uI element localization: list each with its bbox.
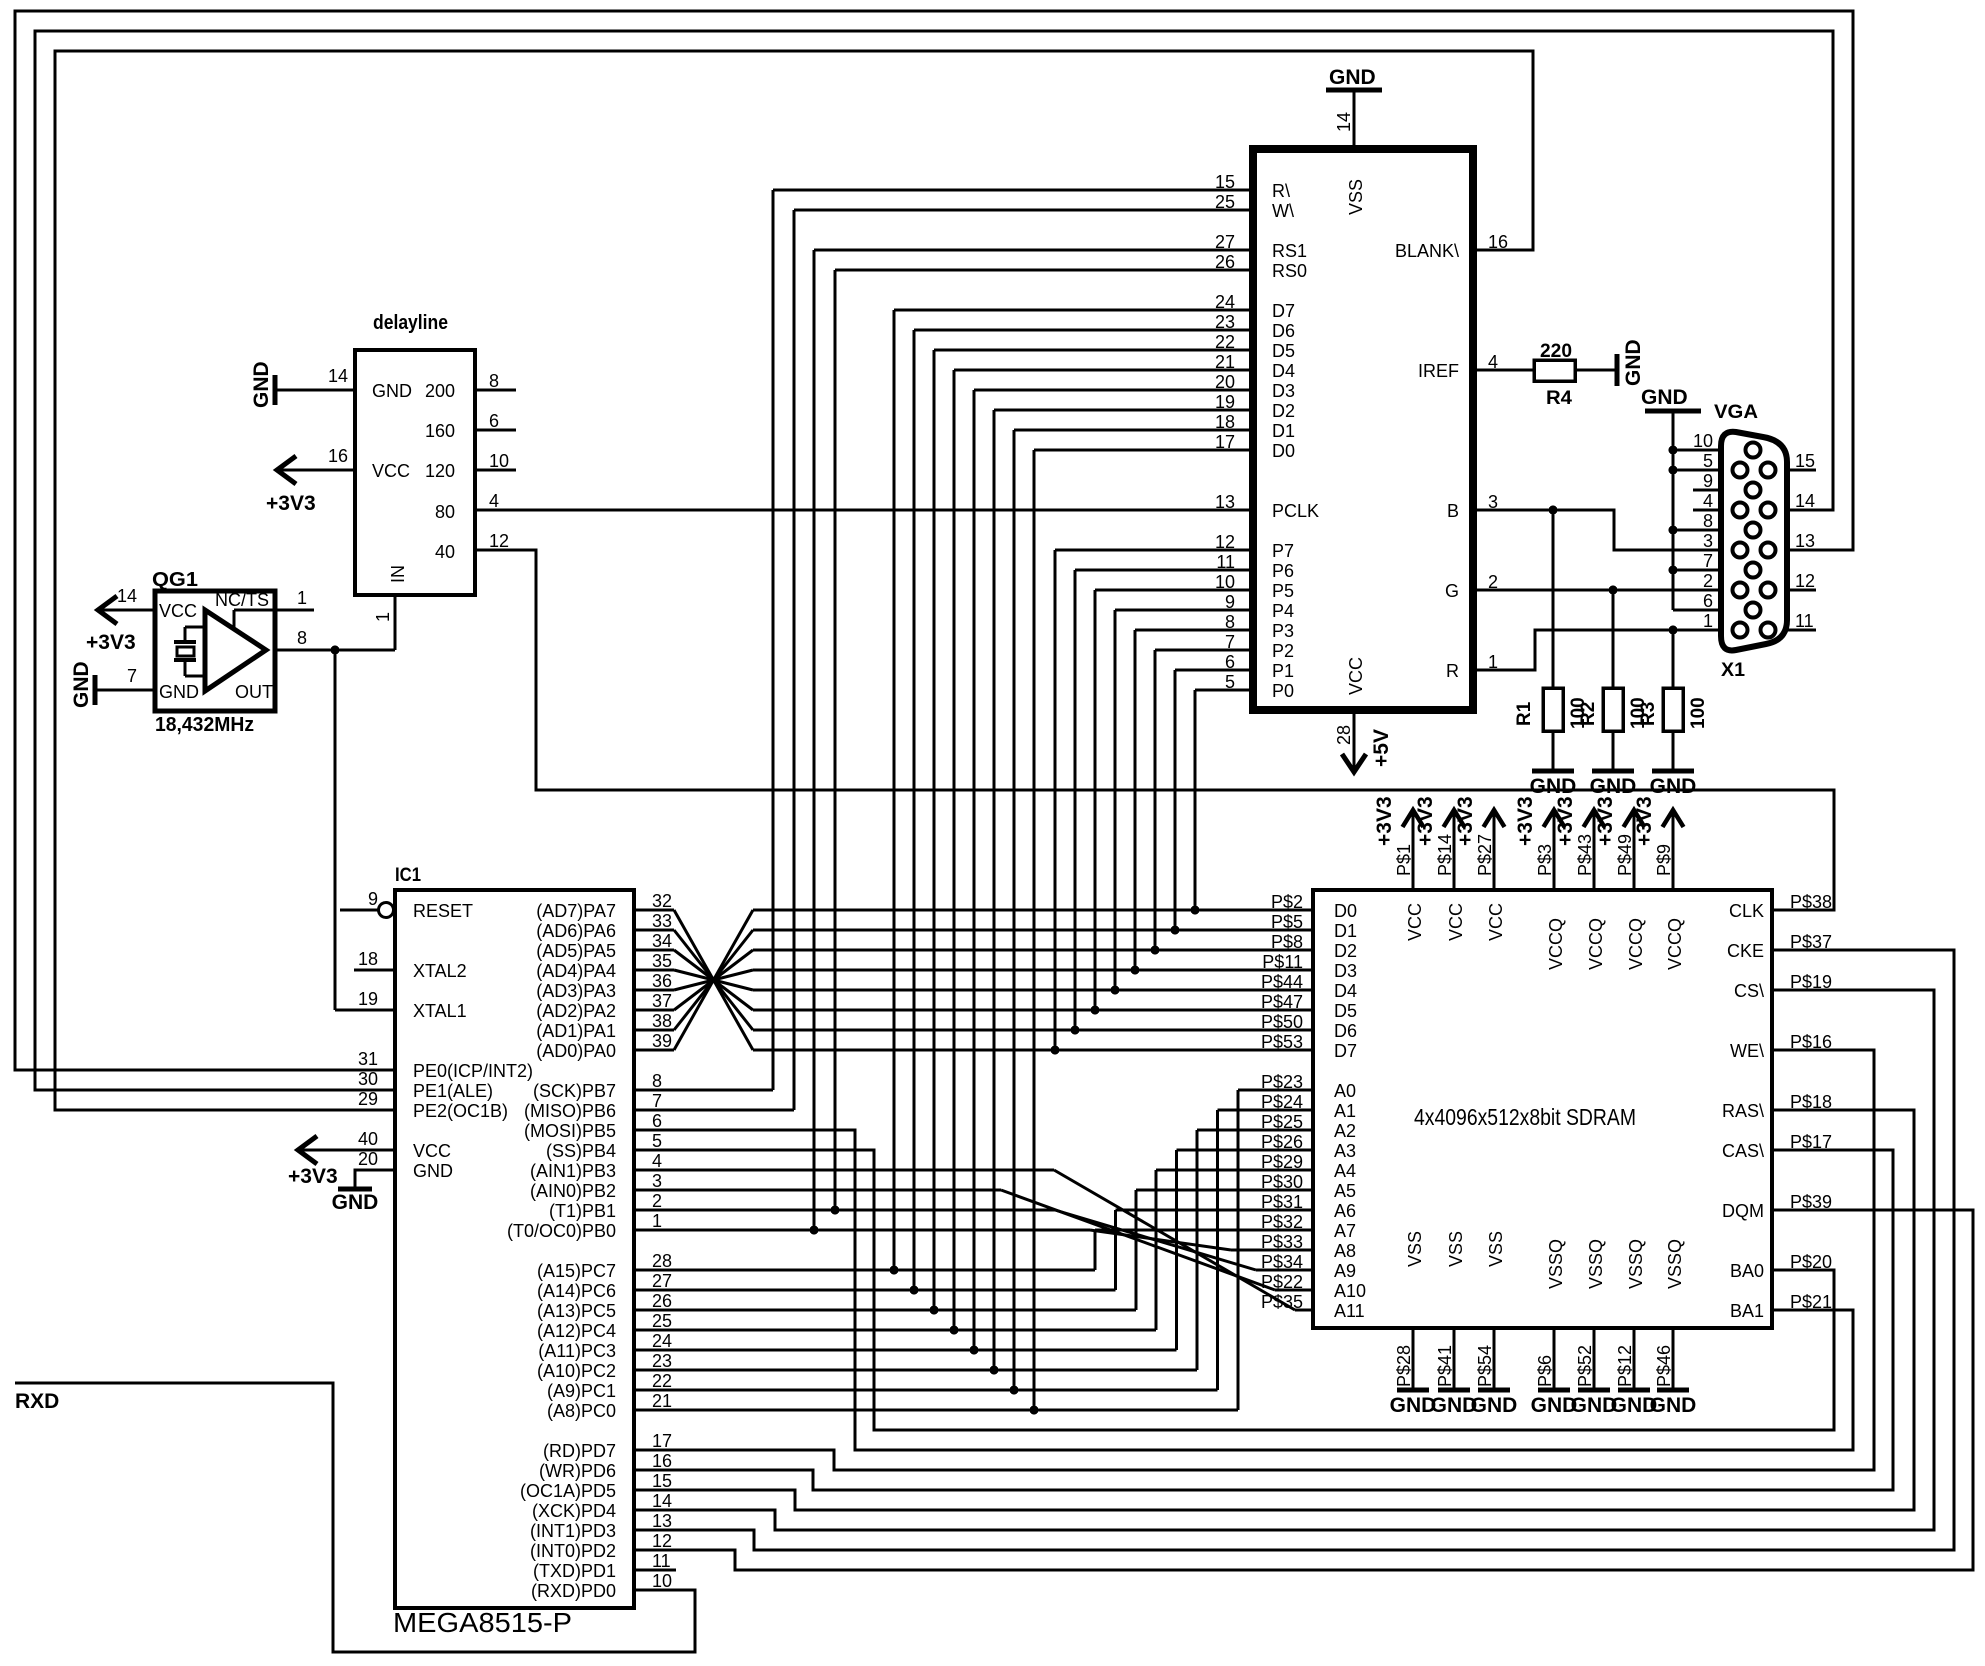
svg-text:P$33: P$33 bbox=[1261, 1232, 1303, 1252]
svg-text:(INT1)PD3: (INT1)PD3 bbox=[530, 1521, 616, 1541]
svg-text:P$23: P$23 bbox=[1261, 1072, 1303, 1092]
svg-text:P$24: P$24 bbox=[1261, 1092, 1303, 1112]
svg-text:P$5: P$5 bbox=[1271, 912, 1303, 932]
svg-text:A3: A3 bbox=[1334, 1141, 1356, 1161]
svg-text:VCC: VCC bbox=[159, 601, 197, 621]
svg-text:GND: GND bbox=[372, 381, 412, 401]
svg-text:VSSQ: VSSQ bbox=[1665, 1239, 1685, 1289]
svg-text:19: 19 bbox=[358, 989, 378, 1009]
svg-text:VCC: VCC bbox=[372, 461, 410, 481]
svg-text:27: 27 bbox=[652, 1271, 672, 1291]
svg-text:VSS: VSS bbox=[1405, 1231, 1425, 1267]
svg-text:P2: P2 bbox=[1272, 641, 1294, 661]
svg-text:(WR)PD6: (WR)PD6 bbox=[539, 1461, 616, 1481]
svg-text:GND: GND bbox=[332, 1191, 379, 1214]
svg-text:P$25: P$25 bbox=[1261, 1112, 1303, 1132]
svg-text:P$1: P$1 bbox=[1394, 844, 1414, 876]
svg-text:R: R bbox=[1446, 661, 1459, 681]
svg-text:4: 4 bbox=[1703, 491, 1713, 511]
svg-text:14: 14 bbox=[117, 586, 137, 606]
svg-text:7: 7 bbox=[1703, 551, 1713, 571]
svg-text:12: 12 bbox=[652, 1531, 672, 1551]
svg-text:P$47: P$47 bbox=[1261, 992, 1303, 1012]
svg-text:14: 14 bbox=[328, 366, 348, 386]
svg-text:22: 22 bbox=[652, 1371, 672, 1391]
svg-text:GND: GND bbox=[1590, 775, 1637, 798]
svg-text:VCCQ: VCCQ bbox=[1665, 918, 1685, 970]
svg-text:GND: GND bbox=[1650, 1394, 1697, 1417]
svg-text:P$2: P$2 bbox=[1271, 892, 1303, 912]
svg-text:P$21: P$21 bbox=[1790, 1292, 1832, 1312]
svg-text:(AD2)PA2: (AD2)PA2 bbox=[536, 1001, 616, 1021]
svg-text:8: 8 bbox=[297, 628, 307, 648]
svg-text:IN: IN bbox=[388, 565, 408, 583]
svg-text:RS1: RS1 bbox=[1272, 241, 1307, 261]
svg-text:+3V3: +3V3 bbox=[1514, 796, 1537, 846]
svg-text:P$34: P$34 bbox=[1261, 1252, 1303, 1272]
svg-text:40: 40 bbox=[358, 1129, 378, 1149]
svg-text:+3V3: +3V3 bbox=[1454, 796, 1477, 846]
svg-text:120: 120 bbox=[425, 461, 455, 481]
svg-text:(A15)PC7: (A15)PC7 bbox=[537, 1261, 616, 1281]
svg-text:D3: D3 bbox=[1272, 381, 1295, 401]
svg-text:A8: A8 bbox=[1334, 1241, 1356, 1261]
svg-text:CLK: CLK bbox=[1729, 901, 1764, 921]
svg-text:(T0/OC0)PB0: (T0/OC0)PB0 bbox=[507, 1221, 616, 1241]
svg-text:10: 10 bbox=[1693, 431, 1713, 451]
svg-text:(AIN0)PB2: (AIN0)PB2 bbox=[530, 1181, 616, 1201]
svg-text:D1: D1 bbox=[1272, 421, 1295, 441]
svg-text:33: 33 bbox=[652, 911, 672, 931]
svg-text:P$26: P$26 bbox=[1261, 1132, 1303, 1152]
svg-text:PE0(ICP/INT2): PE0(ICP/INT2) bbox=[413, 1061, 533, 1081]
svg-text:RAS\: RAS\ bbox=[1722, 1101, 1764, 1121]
svg-text:(AD7)PA7: (AD7)PA7 bbox=[536, 901, 616, 921]
svg-text:+3V3: +3V3 bbox=[1373, 796, 1396, 846]
svg-text:P$52: P$52 bbox=[1575, 1345, 1595, 1387]
svg-text:(RD)PD7: (RD)PD7 bbox=[543, 1441, 616, 1461]
svg-text:(A8)PC0: (A8)PC0 bbox=[547, 1401, 616, 1421]
svg-text:17: 17 bbox=[652, 1431, 672, 1451]
svg-text:D3: D3 bbox=[1334, 961, 1357, 981]
svg-text:6: 6 bbox=[652, 1111, 662, 1131]
svg-text:P6: P6 bbox=[1272, 561, 1294, 581]
svg-text:1: 1 bbox=[652, 1211, 662, 1231]
svg-text:P$54: P$54 bbox=[1475, 1345, 1495, 1387]
svg-text:DQM: DQM bbox=[1722, 1201, 1764, 1221]
svg-text:26: 26 bbox=[652, 1291, 672, 1311]
svg-text:(A13)PC5: (A13)PC5 bbox=[537, 1301, 616, 1321]
svg-text:+3V3: +3V3 bbox=[1554, 796, 1577, 846]
svg-text:(TXD)PD1: (TXD)PD1 bbox=[533, 1561, 616, 1581]
svg-text:BA0: BA0 bbox=[1730, 1261, 1764, 1281]
svg-text:(A14)PC6: (A14)PC6 bbox=[537, 1281, 616, 1301]
svg-text:14: 14 bbox=[1334, 112, 1354, 132]
svg-text:GND: GND bbox=[1641, 386, 1688, 409]
svg-text:D4: D4 bbox=[1334, 981, 1357, 1001]
svg-text:31: 31 bbox=[358, 1049, 378, 1069]
svg-text:23: 23 bbox=[652, 1351, 672, 1371]
svg-text:CS\: CS\ bbox=[1734, 981, 1764, 1001]
svg-text:IC1: IC1 bbox=[395, 865, 421, 886]
svg-text:VCCQ: VCCQ bbox=[1586, 918, 1606, 970]
svg-text:P$28: P$28 bbox=[1394, 1345, 1414, 1387]
svg-text:+3V3: +3V3 bbox=[1594, 796, 1617, 846]
svg-text:8: 8 bbox=[489, 371, 499, 391]
svg-text:RXD: RXD bbox=[15, 1390, 59, 1413]
svg-text:P$43: P$43 bbox=[1575, 834, 1595, 876]
svg-text:D5: D5 bbox=[1272, 341, 1295, 361]
svg-text:10: 10 bbox=[652, 1571, 672, 1591]
svg-text:P$30: P$30 bbox=[1261, 1172, 1303, 1192]
svg-text:(A10)PC2: (A10)PC2 bbox=[537, 1361, 616, 1381]
svg-text:37: 37 bbox=[652, 991, 672, 1011]
svg-text:1: 1 bbox=[297, 588, 307, 608]
svg-text:P$29: P$29 bbox=[1261, 1152, 1303, 1172]
svg-text:+3V3: +3V3 bbox=[1633, 796, 1656, 846]
svg-text:29: 29 bbox=[358, 1089, 378, 1109]
svg-text:P1: P1 bbox=[1272, 661, 1294, 681]
svg-text:220: 220 bbox=[1540, 341, 1572, 362]
svg-text:A0: A0 bbox=[1334, 1081, 1356, 1101]
svg-text:XTAL1: XTAL1 bbox=[413, 1001, 467, 1021]
svg-text:VSSQ: VSSQ bbox=[1586, 1239, 1606, 1289]
svg-text:14: 14 bbox=[652, 1491, 672, 1511]
svg-text:80: 80 bbox=[435, 502, 455, 522]
svg-text:P5: P5 bbox=[1272, 581, 1294, 601]
svg-text:4x4096x512x8bit SDRAM: 4x4096x512x8bit SDRAM bbox=[1414, 1104, 1636, 1130]
svg-text:P4: P4 bbox=[1272, 601, 1294, 621]
svg-text:A1: A1 bbox=[1334, 1101, 1356, 1121]
svg-text:GND: GND bbox=[1471, 1394, 1518, 1417]
svg-text:15: 15 bbox=[1795, 451, 1815, 471]
svg-text:P$31: P$31 bbox=[1261, 1192, 1303, 1212]
svg-text:16: 16 bbox=[1488, 232, 1508, 252]
svg-text:4: 4 bbox=[489, 491, 499, 511]
svg-text:P$11: P$11 bbox=[1262, 952, 1303, 972]
svg-text:6: 6 bbox=[1703, 591, 1713, 611]
svg-text:18,432MHz: 18,432MHz bbox=[155, 714, 254, 736]
svg-text:GND: GND bbox=[1622, 339, 1645, 386]
svg-text:(OC1A)PD5: (OC1A)PD5 bbox=[520, 1481, 616, 1501]
svg-text:D7: D7 bbox=[1272, 301, 1295, 321]
svg-text:PE2(OC1B): PE2(OC1B) bbox=[413, 1101, 508, 1121]
svg-text:GND: GND bbox=[1530, 775, 1577, 798]
svg-text:P$41: P$41 bbox=[1435, 1345, 1455, 1387]
svg-text:P$35: P$35 bbox=[1261, 1292, 1303, 1312]
svg-text:R2: R2 bbox=[1578, 702, 1599, 726]
svg-text:28: 28 bbox=[652, 1251, 672, 1271]
svg-text:200: 200 bbox=[425, 381, 455, 401]
svg-text:PE1(ALE): PE1(ALE) bbox=[413, 1081, 493, 1101]
svg-text:A7: A7 bbox=[1334, 1221, 1356, 1241]
svg-text:NC/TS: NC/TS bbox=[215, 590, 269, 610]
svg-text:8: 8 bbox=[652, 1071, 662, 1091]
svg-text:B: B bbox=[1447, 501, 1459, 521]
svg-text:P$14: P$14 bbox=[1435, 834, 1455, 876]
svg-text:D0: D0 bbox=[1334, 901, 1357, 921]
svg-text:CAS\: CAS\ bbox=[1722, 1141, 1764, 1161]
svg-text:RESET: RESET bbox=[413, 901, 473, 921]
svg-text:39: 39 bbox=[652, 1031, 672, 1051]
svg-text:XTAL2: XTAL2 bbox=[413, 961, 467, 981]
svg-text:CKE: CKE bbox=[1727, 941, 1764, 961]
svg-text:GND: GND bbox=[70, 661, 93, 708]
svg-text:(A9)PC1: (A9)PC1 bbox=[547, 1381, 616, 1401]
svg-text:16: 16 bbox=[652, 1451, 672, 1471]
svg-text:VSS: VSS bbox=[1446, 1231, 1466, 1267]
svg-text:(AD3)PA3: (AD3)PA3 bbox=[536, 981, 616, 1001]
svg-text:A5: A5 bbox=[1334, 1181, 1356, 1201]
svg-text:+3V3: +3V3 bbox=[266, 492, 316, 515]
svg-text:delayline: delayline bbox=[373, 312, 448, 334]
svg-text:38: 38 bbox=[652, 1011, 672, 1031]
svg-text:20: 20 bbox=[358, 1149, 378, 1169]
svg-text:P$32: P$32 bbox=[1261, 1212, 1303, 1232]
svg-text:VCC: VCC bbox=[413, 1141, 451, 1161]
svg-text:25: 25 bbox=[652, 1311, 672, 1331]
svg-text:(XCK)PD4: (XCK)PD4 bbox=[532, 1501, 616, 1521]
svg-text:(T1)PB1: (T1)PB1 bbox=[549, 1201, 616, 1221]
svg-text:R4: R4 bbox=[1546, 388, 1572, 409]
svg-text:24: 24 bbox=[652, 1331, 672, 1351]
svg-text:6: 6 bbox=[489, 411, 499, 431]
svg-text:P$3: P$3 bbox=[1535, 844, 1555, 876]
svg-text:VCC: VCC bbox=[1486, 903, 1506, 941]
svg-text:+5V: +5V bbox=[1370, 729, 1393, 767]
svg-text:VSSQ: VSSQ bbox=[1546, 1239, 1566, 1289]
svg-text:W\: W\ bbox=[1272, 201, 1294, 221]
svg-text:D6: D6 bbox=[1272, 321, 1295, 341]
svg-text:VCC: VCC bbox=[1346, 657, 1366, 695]
svg-text:A11: A11 bbox=[1334, 1301, 1365, 1321]
svg-text:100: 100 bbox=[1688, 697, 1709, 729]
svg-text:P$53: P$53 bbox=[1261, 1032, 1303, 1052]
svg-text:(AD5)PA5: (AD5)PA5 bbox=[536, 941, 616, 961]
svg-text:18: 18 bbox=[358, 949, 378, 969]
svg-text:P$27: P$27 bbox=[1475, 834, 1495, 876]
svg-text:GND: GND bbox=[250, 361, 273, 408]
svg-text:+3V3: +3V3 bbox=[86, 631, 136, 654]
svg-text:RS0: RS0 bbox=[1272, 261, 1307, 281]
svg-text:32: 32 bbox=[652, 891, 672, 911]
svg-text:35: 35 bbox=[652, 951, 672, 971]
svg-text:P3: P3 bbox=[1272, 621, 1294, 641]
svg-text:30: 30 bbox=[358, 1069, 378, 1089]
svg-text:13: 13 bbox=[1215, 492, 1235, 512]
svg-text:2: 2 bbox=[1703, 571, 1713, 591]
svg-text:IREF: IREF bbox=[1418, 361, 1459, 381]
svg-text:GND: GND bbox=[1650, 775, 1697, 798]
svg-text:WE\: WE\ bbox=[1730, 1041, 1764, 1061]
svg-text:(AIN1)PB3: (AIN1)PB3 bbox=[530, 1161, 616, 1181]
svg-text:GND: GND bbox=[1329, 66, 1376, 89]
svg-text:7: 7 bbox=[127, 666, 137, 686]
svg-text:7: 7 bbox=[652, 1091, 662, 1111]
svg-text:3: 3 bbox=[1703, 531, 1713, 551]
svg-text:D4: D4 bbox=[1272, 361, 1295, 381]
svg-text:BLANK\: BLANK\ bbox=[1395, 241, 1459, 261]
svg-text:A2: A2 bbox=[1334, 1121, 1356, 1141]
svg-text:P$50: P$50 bbox=[1261, 1012, 1303, 1032]
svg-text:GND: GND bbox=[1390, 1394, 1437, 1417]
svg-text:(SS)PB4: (SS)PB4 bbox=[546, 1141, 616, 1161]
svg-text:36: 36 bbox=[652, 971, 672, 991]
svg-text:(MOSI)PB5: (MOSI)PB5 bbox=[524, 1121, 616, 1141]
svg-text:15: 15 bbox=[652, 1471, 672, 1491]
svg-text:160: 160 bbox=[425, 421, 455, 441]
svg-text:(AD4)PA4: (AD4)PA4 bbox=[536, 961, 616, 981]
svg-text:(AD0)PA0: (AD0)PA0 bbox=[536, 1041, 616, 1061]
svg-text:+3V3: +3V3 bbox=[288, 1165, 338, 1188]
svg-text:X1: X1 bbox=[1721, 660, 1745, 681]
svg-text:3: 3 bbox=[652, 1171, 662, 1191]
svg-text:9: 9 bbox=[1703, 471, 1713, 491]
svg-text:GND: GND bbox=[413, 1161, 453, 1181]
svg-text:VCC: VCC bbox=[1446, 903, 1466, 941]
svg-text:13: 13 bbox=[652, 1511, 672, 1531]
svg-text:11: 11 bbox=[1795, 611, 1814, 631]
svg-text:P$6: P$6 bbox=[1535, 1355, 1555, 1387]
svg-text:MEGA8515-P: MEGA8515-P bbox=[393, 1607, 572, 1638]
svg-text:9: 9 bbox=[368, 889, 378, 909]
svg-text:14: 14 bbox=[1795, 491, 1815, 511]
svg-text:D6: D6 bbox=[1334, 1021, 1357, 1041]
svg-text:1: 1 bbox=[373, 612, 393, 622]
svg-text:R1: R1 bbox=[1514, 701, 1535, 726]
svg-text:34: 34 bbox=[652, 931, 672, 951]
svg-text:16: 16 bbox=[328, 446, 348, 466]
svg-text:(A11)PC3: (A11)PC3 bbox=[538, 1341, 616, 1361]
svg-text:D2: D2 bbox=[1272, 401, 1295, 421]
svg-text:(SCK)PB7: (SCK)PB7 bbox=[533, 1081, 616, 1101]
svg-text:G: G bbox=[1445, 581, 1459, 601]
svg-text:VSS: VSS bbox=[1486, 1231, 1506, 1267]
svg-text:12: 12 bbox=[1795, 571, 1815, 591]
svg-text:A10: A10 bbox=[1334, 1281, 1366, 1301]
svg-text:BA1: BA1 bbox=[1730, 1301, 1764, 1321]
svg-text:13: 13 bbox=[1795, 531, 1815, 551]
svg-text:2: 2 bbox=[652, 1191, 662, 1211]
svg-text:P$8: P$8 bbox=[1271, 932, 1303, 952]
svg-text:PCLK: PCLK bbox=[1272, 501, 1319, 521]
svg-text:D2: D2 bbox=[1334, 941, 1357, 961]
svg-text:(RXD)PD0: (RXD)PD0 bbox=[531, 1581, 616, 1601]
svg-text:10: 10 bbox=[489, 451, 509, 471]
svg-text:11: 11 bbox=[652, 1551, 671, 1571]
svg-text:R3: R3 bbox=[1638, 702, 1659, 726]
svg-text:(A12)PC4: (A12)PC4 bbox=[537, 1321, 616, 1341]
svg-text:P0: P0 bbox=[1272, 681, 1294, 701]
svg-text:P7: P7 bbox=[1272, 541, 1294, 561]
svg-text:5: 5 bbox=[652, 1131, 662, 1151]
svg-text:12: 12 bbox=[489, 531, 509, 551]
svg-text:GND: GND bbox=[159, 682, 199, 702]
svg-text:(AD1)PA1: (AD1)PA1 bbox=[536, 1021, 616, 1041]
svg-text:(MISO)PB6: (MISO)PB6 bbox=[524, 1101, 616, 1121]
svg-text:D0: D0 bbox=[1272, 441, 1295, 461]
svg-text:P$46: P$46 bbox=[1654, 1345, 1674, 1387]
svg-text:+3V3: +3V3 bbox=[1414, 796, 1437, 846]
svg-text:A9: A9 bbox=[1334, 1261, 1356, 1281]
svg-text:28: 28 bbox=[1334, 725, 1354, 745]
svg-text:4: 4 bbox=[652, 1151, 662, 1171]
svg-text:(AD6)PA6: (AD6)PA6 bbox=[536, 921, 616, 941]
svg-text:D5: D5 bbox=[1334, 1001, 1357, 1021]
svg-text:VGA: VGA bbox=[1714, 402, 1758, 423]
svg-text:VCCQ: VCCQ bbox=[1626, 918, 1646, 970]
svg-text:P$44: P$44 bbox=[1261, 972, 1303, 992]
svg-text:OUT: OUT bbox=[235, 682, 273, 702]
svg-text:A6: A6 bbox=[1334, 1201, 1356, 1221]
svg-text:QG1: QG1 bbox=[152, 569, 198, 591]
svg-text:P$9: P$9 bbox=[1654, 844, 1674, 876]
svg-text:VSSQ: VSSQ bbox=[1626, 1239, 1646, 1289]
svg-text:P$20: P$20 bbox=[1790, 1252, 1832, 1272]
svg-text:D7: D7 bbox=[1334, 1041, 1357, 1061]
svg-text:8: 8 bbox=[1703, 511, 1713, 531]
svg-text:40: 40 bbox=[435, 542, 455, 562]
svg-text:R\: R\ bbox=[1272, 181, 1290, 201]
svg-text:P$49: P$49 bbox=[1615, 834, 1635, 876]
svg-text:VCC: VCC bbox=[1405, 903, 1425, 941]
svg-text:P$38: P$38 bbox=[1790, 892, 1832, 912]
svg-text:VSS: VSS bbox=[1346, 179, 1366, 215]
svg-text:A4: A4 bbox=[1334, 1161, 1356, 1181]
svg-text:P$22: P$22 bbox=[1261, 1272, 1303, 1292]
svg-text:1: 1 bbox=[1703, 611, 1713, 631]
svg-text:21: 21 bbox=[652, 1391, 672, 1411]
svg-text:D1: D1 bbox=[1334, 921, 1357, 941]
svg-text:(INT0)PD2: (INT0)PD2 bbox=[530, 1541, 616, 1561]
svg-text:5: 5 bbox=[1703, 451, 1713, 471]
svg-text:P$12: P$12 bbox=[1615, 1345, 1635, 1387]
svg-text:VCCQ: VCCQ bbox=[1546, 918, 1566, 970]
